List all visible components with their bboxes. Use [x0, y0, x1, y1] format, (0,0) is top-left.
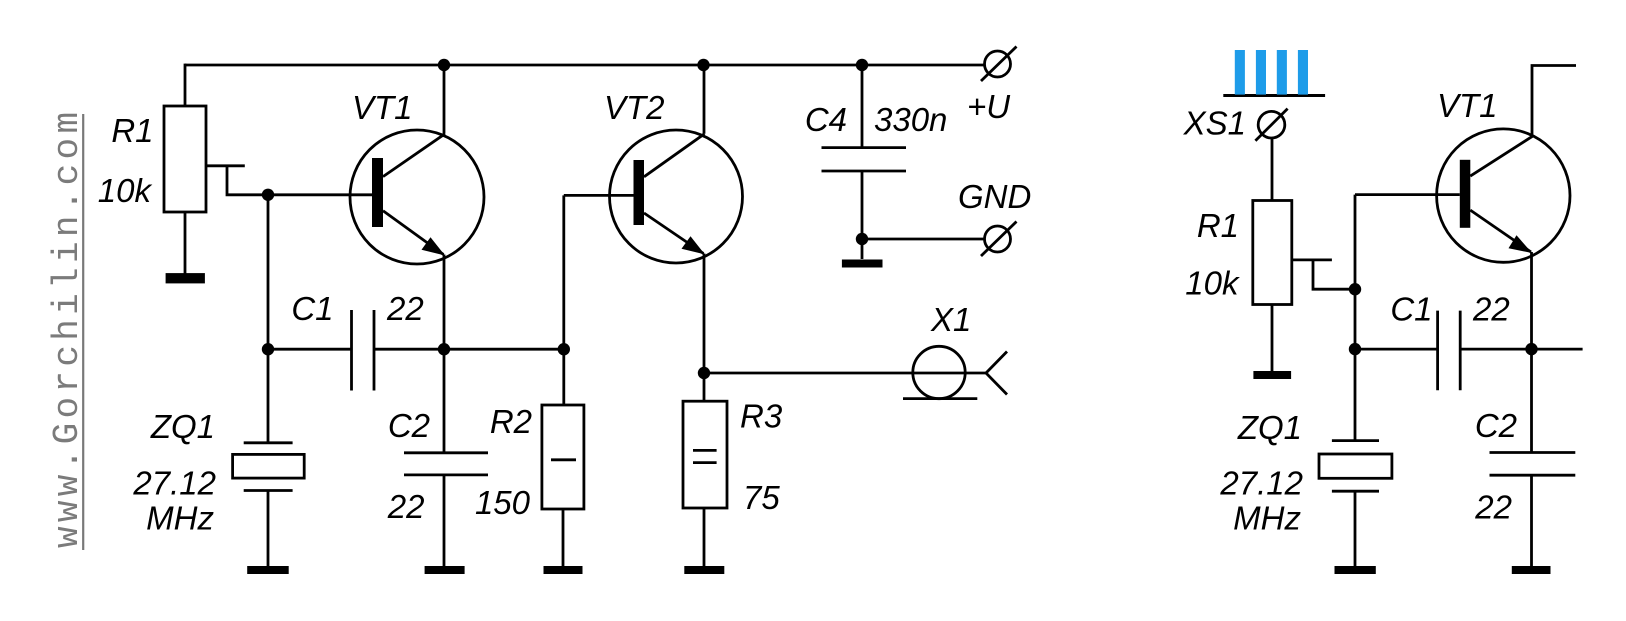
svg-text:10k: 10k	[98, 172, 153, 209]
svg-text:R2: R2	[490, 403, 532, 440]
svg-text:C2: C2	[1475, 407, 1517, 444]
wire: VT1 right base trunk	[1354, 195, 1357, 350]
svg-text:C4: C4	[805, 101, 847, 138]
wire: VT2 base trunk	[562, 195, 565, 405]
ZQ1 body	[233, 454, 305, 478]
ground: below C4	[842, 260, 883, 268]
wire: VT1 collector to rail	[443, 65, 446, 134]
resistor R3 body	[683, 401, 727, 508]
node: VT2 collector on rail	[697, 59, 709, 71]
svg-text:75: 75	[743, 479, 780, 516]
wire: VT1 right emitter down	[1530, 252, 1533, 349]
svg-text:ZQ1: ZQ1	[150, 408, 215, 445]
C2 plates	[404, 451, 488, 454]
wire: R1 right bottom lead	[1271, 305, 1274, 372]
svg-text:MHz: MHz	[1233, 500, 1301, 537]
svg-text:150: 150	[475, 484, 531, 521]
ZQ1 top plate	[244, 441, 293, 444]
VT1 right emitter arrow	[1509, 235, 1533, 253]
VT2 base bar	[634, 160, 645, 225]
svg-text:C2: C2	[388, 407, 430, 444]
capacitor C2 (right) top lead	[1530, 349, 1533, 452]
svg-text:VT1: VT1	[352, 89, 413, 126]
VT1 right collector diagonal	[1470, 136, 1533, 176]
wire: GND node to GND terminal	[862, 238, 985, 241]
transistor VT2 circle	[610, 130, 743, 263]
node: emitter/C2 junction (right)	[1525, 343, 1537, 355]
wire: C2 right bottom lead	[1530, 475, 1533, 566]
svg-text:22: 22	[1474, 489, 1512, 526]
node: C1 left junction	[262, 343, 274, 355]
X1 base line	[903, 397, 977, 400]
terminal XS1 circle	[1258, 111, 1285, 138]
node: wiper junction on trunk	[1349, 283, 1361, 295]
svg-text:VT1: VT1	[1437, 87, 1498, 124]
svg-text:C1: C1	[1390, 291, 1432, 328]
VT1 collector diagonal	[383, 134, 445, 177]
node: C1/VT1 emitter junction	[438, 343, 450, 355]
wire: VT2 base horizontal	[564, 194, 634, 197]
node: C4 / GND junction	[856, 233, 868, 245]
node: VT2 base trunk junction	[558, 343, 570, 355]
wire: C1 right output row	[1460, 348, 1582, 351]
wire: R1 top lead	[184, 64, 187, 106]
svg-text:27.12: 27.12	[132, 465, 216, 502]
wire: R2 bottom lead	[562, 509, 565, 566]
capacitor C1 (left) plates	[350, 310, 353, 391]
svg-text:VT2: VT2	[604, 89, 665, 126]
crystal ZQ1 (right) top lead	[1354, 349, 1357, 441]
resistor R1 (right) body	[1253, 201, 1292, 305]
ground: below C2 (right)	[1512, 566, 1551, 574]
resistor R1 (left, trimmer body)	[164, 106, 206, 212]
ZQ1 right body	[1319, 454, 1392, 478]
ZQ1 right top plate	[1332, 439, 1379, 442]
wire: VT2 collector to rail	[703, 65, 706, 134]
VT1 base bar	[372, 158, 383, 227]
capacitor C4 top lead	[861, 65, 864, 148]
transistor VT1 (right) circle	[1437, 129, 1570, 262]
wire: C1 right to VT2 base trunk	[374, 348, 564, 351]
node: C1 right left junction	[1349, 343, 1361, 355]
svg-text:GND: GND	[958, 178, 1031, 215]
resistor R2 body	[542, 405, 584, 509]
VT1 emitter diagonal	[383, 211, 444, 255]
wire: VT2 emitter down	[703, 254, 706, 402]
wire: X1 output line	[704, 372, 986, 375]
R1 right wiper tap bar	[1292, 258, 1332, 261]
VT1 emitter arrow	[422, 237, 446, 255]
wire: base node down to C1 node	[267, 195, 270, 349]
wire: VT1 right base horizontal	[1355, 193, 1460, 196]
svg-text:XS1: XS1	[1183, 105, 1246, 142]
R1 right wiper drop wire	[1313, 260, 1355, 289]
wire: C2 bottom lead	[443, 475, 446, 566]
ground: below R1 (right)	[1253, 371, 1291, 379]
VT2 emitter diagonal	[644, 213, 704, 254]
wire: VT1 emitter down to C1 node	[443, 255, 446, 350]
VT2 emitter arrow	[682, 236, 705, 254]
wire: R3 bottom lead	[703, 508, 706, 566]
svg-text:C1: C1	[291, 290, 333, 327]
svg-text:22: 22	[386, 290, 424, 327]
antenna XS1 blue bars	[1235, 50, 1308, 95]
R1 wiper tap drop wire	[227, 166, 372, 195]
terminal GND circle	[985, 226, 1011, 252]
VT1 right emitter diagonal	[1470, 210, 1531, 252]
node: C4 on rail	[856, 59, 868, 71]
svg-text:R3: R3	[740, 398, 783, 435]
ground: below ZQ1 (left)	[247, 566, 289, 574]
antenna XS1 base line	[1223, 94, 1325, 97]
wire: C1 node row left segment	[268, 348, 352, 351]
ZQ1 right bottom plate	[1332, 490, 1379, 493]
R1 wiper tap bar	[206, 164, 245, 167]
terminal +U circle	[985, 51, 1011, 77]
svg-text:27.12: 27.12	[1219, 465, 1303, 502]
wire: C4 bottom lead	[861, 171, 864, 259]
X1 mating fork	[986, 352, 1007, 395]
R3 power marks	[693, 449, 717, 452]
ground: below R1 (left)	[167, 275, 204, 283]
wire: C1 right row	[1355, 348, 1438, 351]
ground: below ZQ1 (right)	[1335, 566, 1376, 574]
svg-text:R1: R1	[111, 112, 153, 149]
node: VT2 emitter / R3 / X1 junction	[698, 367, 710, 379]
watermark rule line	[82, 114, 84, 550]
connector X1 circle	[913, 346, 965, 398]
C2 right plates	[1490, 451, 1576, 454]
wire: VT1 right collector up and out	[1532, 66, 1576, 136]
ZQ1 bottom plate	[244, 489, 293, 492]
VT2 collector diagonal	[644, 134, 705, 177]
svg-text:+U: +U	[967, 88, 1010, 125]
svg-text:330n: 330n	[874, 101, 947, 138]
svg-text:R1: R1	[1197, 207, 1239, 244]
svg-text:www.Gorchilin.com: www.Gorchilin.com	[47, 108, 88, 548]
capacitor C2 (left) top lead	[443, 349, 446, 453]
ground: below C2 (left)	[425, 566, 465, 574]
svg-text:10k: 10k	[1185, 265, 1240, 302]
VT1 right base bar	[1460, 160, 1471, 228]
ground: below R3	[684, 566, 724, 574]
node: VT1 base junction	[262, 189, 274, 201]
wire: ZQ1 bottom lead	[267, 491, 270, 567]
svg-text:ZQ1: ZQ1	[1237, 409, 1302, 446]
wire: R1 bottom lead	[184, 212, 187, 275]
crystal ZQ1 (left) top lead	[267, 349, 270, 443]
svg-text:X1: X1	[930, 301, 971, 338]
C4 plates	[822, 146, 907, 149]
ground: below R2	[544, 566, 583, 574]
transistor VT1 (left) circle	[350, 130, 484, 264]
svg-text:22: 22	[1472, 291, 1510, 328]
wire: XS1 to R1	[1271, 138, 1274, 201]
R2 power mark	[551, 458, 576, 461]
wire: +U top supply rail	[185, 64, 985, 67]
svg-text:22: 22	[387, 488, 425, 525]
svg-text:MHz: MHz	[146, 500, 214, 537]
wire: ZQ1 right bottom lead	[1354, 491, 1357, 566]
node: VT1 collector on rail	[438, 59, 450, 71]
capacitor C1 (right) plates	[1436, 311, 1439, 391]
